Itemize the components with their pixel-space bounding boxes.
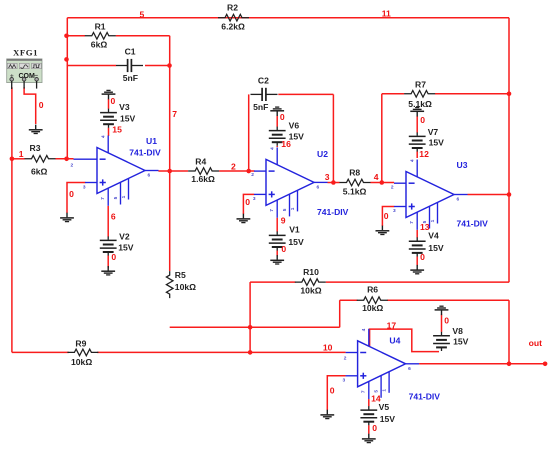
ground above V3 bbox=[106, 89, 110, 91]
svg-text:0: 0 bbox=[444, 316, 449, 326]
op-amp U1 741-DIV bbox=[97, 148, 145, 194]
svg-text:4: 4 bbox=[361, 328, 367, 331]
svg-text:7: 7 bbox=[269, 209, 275, 212]
resistor R1 bbox=[85, 33, 116, 40]
svg-text:7: 7 bbox=[100, 197, 106, 200]
svg-text:10kΩ: 10kΩ bbox=[71, 357, 92, 367]
svg-text:3: 3 bbox=[393, 208, 396, 214]
junction node 10 bbox=[248, 350, 253, 355]
junction out row bbox=[507, 362, 512, 367]
svg-text:5: 5 bbox=[282, 208, 288, 211]
ground below V1 bbox=[276, 255, 278, 260]
svg-text:10: 10 bbox=[323, 342, 333, 352]
wire node 4 vertical up to R7 bbox=[381, 94, 383, 183]
wire U4 pin4 node 17 to V8 bbox=[370, 329, 439, 352]
svg-text:0: 0 bbox=[420, 252, 425, 262]
wire V5 to ground node 0 bbox=[368, 425, 370, 434]
svg-text:V1: V1 bbox=[289, 225, 300, 235]
capacitor C1 bbox=[116, 65, 128, 67]
battery V2 bbox=[107, 236, 109, 239]
wire node 2 vertical to C2 bbox=[248, 94, 250, 171]
XFG1 terminal stubs bbox=[11, 81, 13, 89]
svg-text:5nF: 5nF bbox=[253, 102, 268, 112]
op-amp U2 741-DIV bbox=[266, 159, 314, 205]
junction node 2 bbox=[246, 169, 251, 174]
svg-text:15V: 15V bbox=[120, 114, 136, 124]
svg-text:6: 6 bbox=[111, 211, 116, 221]
svg-text:15V: 15V bbox=[118, 243, 134, 253]
svg-text:1: 1 bbox=[121, 195, 127, 198]
svg-text:out: out bbox=[529, 338, 542, 348]
wire XFG1 COM to ground node 0 bbox=[24, 87, 36, 124]
svg-text:9: 9 bbox=[281, 215, 286, 225]
terminal dot out bbox=[543, 362, 548, 367]
svg-text:2: 2 bbox=[251, 172, 254, 178]
battery V5 bbox=[368, 406, 370, 409]
svg-text:11: 11 bbox=[382, 8, 391, 18]
wire V7 ground stem node 0 bbox=[416, 116, 418, 133]
resistor R6 bbox=[357, 297, 388, 304]
svg-text:U3: U3 bbox=[457, 160, 468, 170]
wire node 10 row R9 to U4 bbox=[12, 351, 69, 353]
svg-text:13: 13 bbox=[420, 222, 430, 232]
wire U3 pin3 ground feed bbox=[382, 207, 394, 227]
svg-text:7: 7 bbox=[172, 109, 177, 119]
svg-text:R4: R4 bbox=[195, 157, 206, 167]
svg-text:5: 5 bbox=[373, 390, 379, 393]
svg-text:C1: C1 bbox=[125, 47, 136, 57]
wire U1 pin3 ground feed bbox=[67, 183, 85, 214]
wire V6 to U2 pin4 node 16 bbox=[276, 146, 278, 147]
svg-text:6kΩ: 6kΩ bbox=[31, 166, 48, 176]
battery V4 bbox=[416, 237, 418, 240]
svg-text:17: 17 bbox=[387, 320, 397, 330]
svg-text:741-DIV: 741-DIV bbox=[457, 219, 489, 229]
svg-text:0: 0 bbox=[245, 197, 250, 207]
svg-text:5.1kΩ: 5.1kΩ bbox=[343, 187, 367, 197]
junction node 4 bbox=[380, 180, 385, 185]
svg-text:1: 1 bbox=[290, 207, 296, 210]
svg-text:15: 15 bbox=[112, 125, 122, 135]
svg-text:V2: V2 bbox=[119, 231, 130, 241]
wire R10 right lead to node 11 vertical bbox=[326, 281, 509, 283]
svg-text:741-DIV: 741-DIV bbox=[129, 148, 161, 158]
svg-text:4: 4 bbox=[100, 135, 106, 138]
svg-text:5: 5 bbox=[113, 196, 119, 199]
wire R6 left lead bbox=[340, 299, 358, 301]
junction node 5 / C1 wire bbox=[64, 57, 69, 62]
svg-text:12: 12 bbox=[419, 149, 429, 159]
svg-text:7: 7 bbox=[409, 221, 415, 224]
wire R6 jog vertical bbox=[339, 300, 341, 327]
wire U2 pin7 to V1 node 9 bbox=[276, 218, 278, 232]
wire vertical net 7 (R1/C1 right to U1 out to R5) bbox=[169, 36, 171, 271]
svg-text:14: 14 bbox=[371, 393, 381, 403]
wire V1 to ground node 0 bbox=[276, 251, 278, 257]
XFG1 sine button icon bbox=[9, 65, 16, 68]
svg-text:V5: V5 bbox=[379, 402, 390, 412]
wire U2 output node 3 to R8 bbox=[328, 182, 340, 184]
wire R7 left lead bbox=[382, 93, 404, 95]
wire C2 right lead to node 3 branch bbox=[278, 93, 333, 95]
wire R3 row node 1 bbox=[12, 158, 25, 160]
svg-text:3: 3 bbox=[253, 196, 256, 202]
wire C1 right lead to net 7 bbox=[145, 65, 170, 67]
svg-text:15V: 15V bbox=[428, 243, 444, 253]
ground U4 pin3 bbox=[326, 410, 328, 415]
resistor R9 bbox=[67, 349, 98, 356]
svg-text:1.6kΩ: 1.6kΩ bbox=[191, 174, 215, 184]
svg-text:R6: R6 bbox=[367, 285, 378, 295]
svg-text:15V: 15V bbox=[380, 414, 396, 424]
battery V6 bbox=[276, 127, 278, 130]
junction R7 right node 11 bbox=[507, 92, 512, 97]
wire V6 ground stem bbox=[276, 116, 278, 127]
svg-text:XFG1: XFG1 bbox=[13, 47, 38, 57]
svg-text:COM: COM bbox=[19, 73, 36, 80]
svg-text:3: 3 bbox=[83, 185, 86, 191]
svg-text:R10: R10 bbox=[303, 267, 319, 277]
svg-text:10kΩ: 10kΩ bbox=[362, 303, 383, 313]
svg-text:1: 1 bbox=[430, 219, 436, 222]
wire node 11 right vertical bbox=[508, 18, 510, 283]
wire R8 right node 4 to U3 pin2 bbox=[370, 182, 394, 184]
ground below V2 bbox=[107, 266, 109, 271]
svg-text:15V: 15V bbox=[288, 237, 304, 247]
svg-text:R5: R5 bbox=[175, 270, 186, 280]
op-amp U3 741-DIV bbox=[406, 172, 454, 218]
svg-text:5.1kΩ: 5.1kΩ bbox=[408, 99, 432, 109]
svg-text:U4: U4 bbox=[389, 336, 400, 346]
wire R5 bottom row to R6 jog bbox=[170, 326, 340, 328]
svg-text:10kΩ: 10kΩ bbox=[300, 286, 321, 296]
op-amp U4 741-DIV bbox=[358, 341, 406, 387]
svg-text:U1: U1 bbox=[146, 136, 157, 146]
battery V1 bbox=[276, 231, 278, 234]
wire V3 ground to battery bbox=[108, 99, 110, 109]
wire V7 to U3 pin4 node 12 bbox=[416, 151, 418, 158]
ground U2 pin3 bbox=[242, 214, 244, 219]
junction U3 out node 11 bbox=[507, 192, 512, 197]
wire XFG1 plus output down left side node 1 bbox=[11, 87, 13, 352]
svg-text:C2: C2 bbox=[258, 76, 269, 86]
svg-text:15V: 15V bbox=[453, 336, 469, 346]
wire C1 left lead bbox=[67, 65, 116, 67]
wire R6 right lead to out vertical bbox=[387, 299, 509, 301]
wire R1 right to vertical 7 bbox=[116, 35, 170, 37]
wire U4 pin7 to V5 node 14 bbox=[368, 399, 370, 406]
ground above V7 bbox=[415, 107, 419, 109]
wire R1 left lead to branch bbox=[67, 35, 85, 37]
svg-text:15V: 15V bbox=[289, 132, 305, 142]
junction node 1 at R3 right bbox=[64, 157, 69, 162]
svg-text:V7: V7 bbox=[428, 127, 439, 137]
ground above V8 bbox=[439, 305, 443, 307]
wire V2 to ground node 0 bbox=[107, 266, 109, 268]
svg-text:R8: R8 bbox=[349, 168, 360, 178]
wire U2 pin3 ground feed bbox=[243, 194, 254, 214]
resistor R2 bbox=[218, 14, 249, 21]
wire V4 to ground node 0 bbox=[416, 256, 418, 265]
svg-text:0: 0 bbox=[111, 96, 116, 106]
battery V7 bbox=[416, 132, 418, 135]
svg-text:5: 5 bbox=[140, 10, 145, 20]
svg-text:6.2kΩ: 6.2kΩ bbox=[221, 22, 245, 32]
resistor R10 bbox=[295, 279, 326, 286]
svg-text:R2: R2 bbox=[227, 3, 238, 13]
wire R3 right to U1 pin2 bbox=[55, 158, 73, 160]
wire node 5 top horizontal bbox=[67, 17, 509, 19]
svg-text:3: 3 bbox=[325, 172, 330, 182]
resistor R3 bbox=[25, 156, 56, 163]
wire R4 right to node 2 bbox=[219, 170, 254, 172]
resistor R4 bbox=[188, 168, 219, 175]
svg-text:2: 2 bbox=[231, 162, 236, 172]
svg-text:0: 0 bbox=[39, 100, 44, 110]
svg-text:4: 4 bbox=[374, 172, 379, 182]
svg-text:6: 6 bbox=[457, 197, 460, 203]
wire V3 to U1 pin4 node 15 bbox=[108, 128, 110, 136]
wire R10 left lead bbox=[250, 281, 295, 283]
ground above V6 bbox=[275, 106, 279, 108]
ground XFG1 COM bbox=[35, 125, 37, 130]
wire vertical R10 to node 10 row bbox=[249, 282, 251, 352]
XFG1 triangle button icon bbox=[21, 65, 29, 69]
svg-text:2: 2 bbox=[391, 184, 394, 190]
battery V8 bbox=[441, 332, 443, 335]
svg-text:R1: R1 bbox=[95, 22, 106, 32]
ground below V4 bbox=[416, 265, 418, 270]
resistor R7 bbox=[404, 91, 435, 98]
svg-text:V3: V3 bbox=[119, 102, 130, 112]
svg-text:741-DIV: 741-DIV bbox=[409, 392, 441, 402]
resistor R5 bbox=[166, 271, 173, 298]
junction U1 output net 7 bbox=[167, 169, 172, 174]
ground below V5 bbox=[368, 434, 370, 439]
svg-text:V6: V6 bbox=[289, 120, 300, 130]
svg-text:0: 0 bbox=[69, 189, 74, 199]
svg-text:U2: U2 bbox=[317, 149, 328, 159]
svg-text:6: 6 bbox=[148, 173, 151, 179]
svg-text:R7: R7 bbox=[415, 79, 426, 89]
capacitor C2 bbox=[251, 93, 263, 95]
svg-text:1: 1 bbox=[381, 389, 387, 392]
svg-text:2: 2 bbox=[71, 163, 74, 169]
ground U1 pin3 bbox=[66, 213, 68, 218]
svg-text:15V: 15V bbox=[429, 137, 445, 147]
junction R5 row node bbox=[248, 325, 253, 330]
svg-text:6kΩ: 6kΩ bbox=[91, 40, 108, 50]
svg-text:R3: R3 bbox=[30, 143, 41, 153]
wire U3 output to node 11 vertical bbox=[468, 194, 510, 196]
wire U1 output to R4 node 7 bbox=[158, 170, 188, 172]
svg-text:V4: V4 bbox=[428, 230, 439, 240]
svg-text:0: 0 bbox=[281, 244, 286, 254]
svg-text:741-DIV: 741-DIV bbox=[317, 207, 349, 217]
junction node 1 at XFG column bbox=[10, 157, 15, 162]
svg-text:V8: V8 bbox=[452, 326, 463, 336]
wire node 5 left vertical branch bbox=[66, 18, 68, 159]
wire U3 pin7 to V4 node 13 bbox=[416, 230, 418, 238]
XFG1 terminals bbox=[10, 78, 14, 82]
wire out vertical right side bbox=[508, 300, 510, 364]
svg-text:0: 0 bbox=[384, 211, 389, 221]
svg-text:2: 2 bbox=[344, 356, 347, 362]
svg-text:3: 3 bbox=[343, 378, 346, 384]
svg-text:4: 4 bbox=[409, 159, 415, 162]
wire U4 pin3 ground feed bbox=[327, 376, 346, 410]
ground U3 pin3 bbox=[381, 226, 383, 231]
wire C2 right vertical down to node 3 bbox=[332, 94, 334, 182]
svg-text:R9: R9 bbox=[75, 339, 86, 349]
wire V8 ground stem node 0 bbox=[441, 315, 443, 332]
svg-text:5nF: 5nF bbox=[123, 73, 138, 83]
svg-text:0: 0 bbox=[330, 386, 335, 396]
XFG1 square button icon bbox=[33, 65, 40, 68]
junction C1 right net 7 bbox=[167, 63, 172, 68]
wire R7 right lead to node 11 bbox=[435, 93, 509, 95]
resistor R8 bbox=[340, 179, 371, 186]
svg-text:4: 4 bbox=[269, 147, 275, 150]
svg-text:0: 0 bbox=[280, 112, 285, 122]
junction node 5 / R1 bbox=[64, 34, 69, 39]
svg-text:0: 0 bbox=[420, 115, 425, 125]
svg-text:0: 0 bbox=[111, 252, 116, 262]
svg-text:6: 6 bbox=[408, 366, 411, 372]
wire U4 output to out node bbox=[419, 363, 545, 365]
battery V3 bbox=[108, 109, 110, 112]
junction node 3 bbox=[331, 180, 336, 185]
svg-text:6: 6 bbox=[317, 185, 320, 191]
svg-text:0: 0 bbox=[372, 423, 377, 433]
svg-text:16: 16 bbox=[281, 139, 291, 149]
svg-text:7: 7 bbox=[361, 390, 367, 393]
wire U1 pin7 to V2 node 6 bbox=[107, 206, 109, 237]
svg-text:1: 1 bbox=[19, 149, 24, 159]
svg-text:10kΩ: 10kΩ bbox=[175, 282, 196, 292]
